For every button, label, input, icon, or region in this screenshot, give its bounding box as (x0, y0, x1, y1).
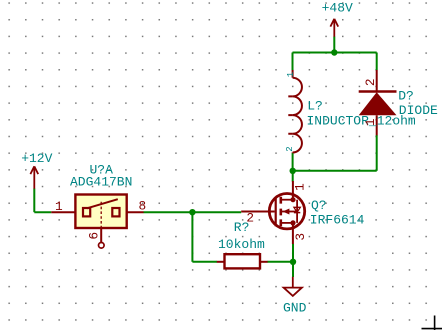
wire mid rail y=170.8 (293, 170, 377, 172)
Q? bulk arrow (282, 211, 297, 213)
Q? source connection (281, 222, 294, 224)
switch pin 8 line (127, 211, 144, 213)
wire gnd stem (292, 262, 294, 277)
svg-text:DIODE: DIODE (399, 103, 438, 118)
svg-text:6: 6 (86, 232, 101, 240)
wire resistor left (192, 261, 217, 263)
svg-text:1: 1 (55, 199, 63, 214)
wire inductor top vertical (292, 53, 294, 71)
wire +48V stem (333, 37, 335, 53)
Q? channel segments (279, 197, 282, 227)
inductor L? (288, 70, 302, 153)
Q? body diode (296, 200, 298, 223)
svg-text:1: 1 (286, 72, 296, 77)
wire +12V stem (33, 189, 35, 213)
node junction at +48V tap (331, 49, 337, 55)
svg-text:+12V: +12V (21, 151, 52, 166)
wire inductor bottom vertical (292, 153, 294, 171)
svg-text:2: 2 (246, 210, 254, 225)
switch left contact (83, 208, 90, 216)
node junction gate rail (189, 209, 195, 215)
power +48V symbol arrow (330, 19, 338, 37)
switch right contact (112, 208, 119, 216)
wire top rail y=52.5 from inductor corner to diode corner (293, 52, 377, 54)
svg-text:GND: GND (283, 300, 307, 315)
svg-text:2: 2 (285, 146, 295, 151)
switch pin 1 line (51, 211, 75, 213)
svg-text:1: 1 (363, 118, 378, 126)
svg-text:10kohm: 10kohm (218, 237, 265, 252)
Q? drain connection (281, 199, 294, 201)
Q? drain pin (292, 181, 294, 200)
switch control pin with bubble (100, 228, 102, 242)
resistor pin left (217, 261, 225, 263)
power +12V symbol arrow (30, 166, 38, 188)
wire gate rail right (144, 211, 242, 213)
cursor crosshair (422, 316, 442, 330)
svg-text:D?: D? (398, 88, 414, 103)
svg-text:Q?: Q? (311, 198, 327, 213)
ground symbol (292, 277, 294, 288)
diode D? (376, 70, 378, 92)
Q? gate pin line (241, 211, 274, 213)
wire diode bottom vertical (376, 135, 378, 171)
wire junction down vertical x=192.4 (191, 212, 193, 262)
svg-text:+48V: +48V (322, 0, 353, 15)
Q? gate bar (275, 197, 277, 227)
Q? source pin (292, 223, 294, 244)
wire diode top vertical (376, 53, 378, 71)
resistor R? (225, 254, 261, 268)
wire drain stub (292, 171, 294, 182)
switch control dashed line (100, 202, 102, 228)
wire resistor right (267, 261, 293, 263)
svg-text:8: 8 (139, 199, 147, 214)
svg-text:ADG417BN: ADG417BN (70, 174, 132, 189)
node junction below inductor (290, 168, 296, 174)
wire gate rail left (34, 211, 51, 213)
switch lever (87, 199, 118, 208)
svg-text:L?: L? (307, 98, 323, 113)
analog switch U?A ADG417BN body (75, 195, 126, 229)
node junction below mosfet (290, 259, 296, 265)
svg-text:2: 2 (363, 78, 378, 86)
wire source stub (292, 244, 294, 262)
transistor Q? IRF6614 (269, 194, 304, 229)
resistor pin right (260, 261, 268, 263)
svg-text:IRF6614: IRF6614 (310, 212, 365, 227)
svg-text:3: 3 (293, 233, 308, 241)
svg-text:1: 1 (293, 183, 308, 191)
